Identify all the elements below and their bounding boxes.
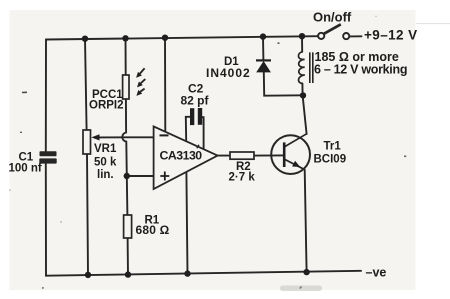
photocell light arrow 1 (136, 68, 145, 78)
relay core bars (310, 52, 313, 83)
photocell light arrow 2 (137, 79, 145, 87)
svg-text:On/off: On/off (313, 10, 352, 25)
switch terminal circle right (343, 33, 349, 39)
node bottom rail / emitter (303, 269, 309, 275)
wire left edge upper (45, 40, 47, 153)
transistor emitter arrowhead (292, 161, 300, 167)
wire op-amp output (218, 155, 231, 157)
svg-text:680 Ω: 680 Ω (136, 223, 170, 237)
resistor R1 body (124, 215, 132, 238)
svg-text:6 – 12 V working: 6 – 12 V working (314, 63, 407, 77)
svg-text:BCI09: BCI09 (314, 154, 347, 166)
resistor R2 body (230, 152, 254, 159)
svg-text:Tr1: Tr1 (324, 141, 342, 153)
svg-text:82 pf: 82 pf (181, 94, 210, 108)
potentiometer VR1 body (83, 130, 91, 154)
transistor base bar (283, 142, 286, 167)
switch terminal circle left (318, 33, 324, 39)
op-amp U1 CA3130 body (154, 126, 218, 189)
wire D1 top lead (262, 37, 264, 60)
svg-text:+9–12 V: +9–12 V (364, 27, 417, 42)
node top rail / LDR (122, 35, 128, 41)
wire bottom rail (46, 271, 361, 276)
svg-text:IN4002: IN4002 (206, 66, 251, 80)
wire C2 left lead (186, 117, 190, 142)
transistor Tr1 circle (271, 135, 310, 174)
svg-text:–ve: –ve (366, 266, 387, 280)
transistor emitter stroke (285, 160, 305, 170)
wire inverting input from VR1 wiper (99, 136, 154, 138)
node relay bottom / D1 / collector (300, 92, 306, 98)
wire R2 to base (254, 154, 283, 156)
wire VR1 bottom lead (87, 154, 88, 275)
potentiometer VR1 wiper arrow (91, 134, 99, 140)
wire op-amp V- to bottom rail (186, 172, 187, 274)
capacitor C1 plates (39, 151, 56, 163)
svg-text:50 k: 50 k (94, 157, 117, 169)
diode D1 body (256, 61, 271, 72)
wire left edge lower (45, 164, 47, 276)
svg-text:2·7 k: 2·7 k (229, 172, 256, 184)
wire emitter to bottom rail (305, 170, 307, 272)
photocell PCC1 body (123, 75, 129, 99)
wire top rail (46, 36, 318, 39)
capacitor C2 plates (190, 108, 202, 125)
node bottom rail / VR1 (85, 272, 91, 278)
op-amp plus sign (160, 172, 169, 181)
svg-text:VR1: VR1 (94, 143, 117, 155)
photocell light arrow 3 (136, 89, 144, 96)
wire switch to supply label (350, 35, 362, 37)
wire C2 right lead (202, 117, 203, 149)
wire R1 top lead (126, 176, 129, 215)
node top rail / D1 (260, 33, 266, 39)
svg-text:CA3130: CA3130 (160, 149, 203, 163)
wire VR1 top lead (85, 39, 87, 130)
wire LDR top lead (125, 38, 127, 75)
wire D1 bottom lead to relay bottom (264, 72, 303, 95)
relay coil loops (298, 52, 304, 84)
svg-text:lin.: lin. (97, 169, 114, 181)
switch lever (324, 24, 341, 34)
smudge bottom (280, 286, 322, 292)
op-amp minus sign (160, 134, 169, 136)
transistor collector stroke (285, 134, 307, 147)
svg-text:100 nf: 100 nf (9, 163, 42, 175)
node top rail / VR1 (82, 36, 88, 42)
wire LDR bottom lead with hop (122, 99, 127, 176)
wire relay bottom to collector (302, 83, 306, 134)
wire relay top lead (301, 36, 303, 52)
svg-text:ORPI2: ORPI2 (89, 100, 124, 112)
node LDR / R1 / +input (124, 173, 130, 179)
accent tick over CA3130 (197, 145, 199, 149)
wire non-inverting input (127, 175, 154, 177)
node top rail / opamp V+ (162, 35, 168, 41)
wire R1 bottom lead (127, 238, 129, 275)
node bottom rail / R1 (125, 271, 131, 277)
node top rail / relay (299, 33, 305, 39)
node bottom rail / opamp V- (184, 270, 190, 276)
wire op-amp V+ from top rail (164, 38, 166, 132)
